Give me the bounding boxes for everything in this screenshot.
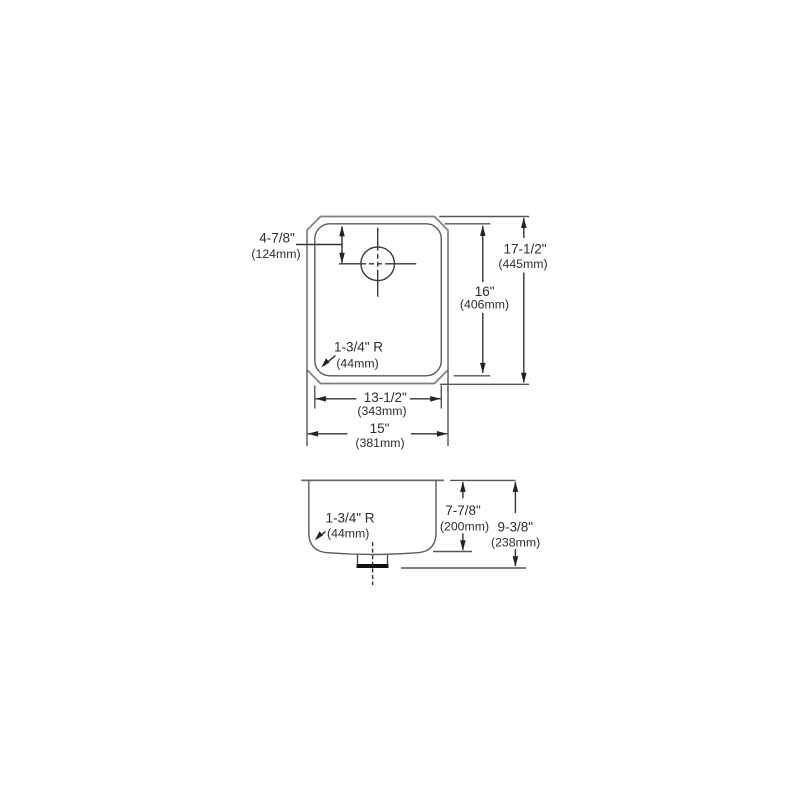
svg-text:13-1/2": 13-1/2": [364, 390, 407, 405]
svg-text:(124mm): (124mm): [251, 247, 300, 261]
side view: rim line: [301, 479, 444, 481]
dim 17-1/2 down arrow: [521, 373, 527, 384]
faucet hole horizontal centerline: [339, 263, 416, 265]
top view: outer rim outline (chamfered rectangle): [307, 217, 448, 384]
dim 15 left extension line: [306, 370, 308, 446]
dim 13-1/2 dimension line left segment: [316, 398, 357, 400]
dim 15 left arrow: [308, 431, 319, 437]
faucet hole vertical centerline: [377, 228, 379, 297]
dim 7-7/8 dimension line upper segment: [462, 482, 464, 498]
svg-text:15": 15": [370, 421, 390, 436]
svg-text:7-7/8": 7-7/8": [445, 503, 481, 518]
dim 13-1/2 left arrow: [315, 396, 326, 402]
dim 13-1/2 right extension line: [440, 386, 442, 409]
svg-text:(406mm): (406mm): [460, 298, 509, 312]
side view corner radius arrow: [317, 532, 326, 539]
dim 17-1/2 up arrow: [521, 218, 527, 229]
dim 4-7/8 dimension line: [341, 227, 343, 264]
dim 15 right arrow: [437, 431, 448, 437]
svg-text:4-7/8": 4-7/8": [259, 231, 295, 246]
dim 7-7/8 dimension line lower segment: [462, 533, 464, 550]
svg-text:(343mm): (343mm): [357, 404, 406, 418]
svg-text:(44mm): (44mm): [327, 527, 369, 541]
dim 9-3/8 dimension line lower segment: [514, 549, 516, 566]
svg-text:(445mm): (445mm): [498, 257, 547, 271]
side view: bowl outline: [309, 480, 436, 554]
dim 4-7/8 leader line: [296, 244, 342, 246]
svg-text:1-3/4" R: 1-3/4" R: [325, 511, 374, 526]
dim 7-7/8 bottom extension line: [433, 551, 472, 553]
svg-text:17-1/2": 17-1/2": [503, 242, 546, 257]
dim 4-7/8 down arrow: [339, 253, 345, 263]
corner radius arrow top view: [324, 356, 336, 366]
dim 17-1/2 dimension line lower segment: [523, 273, 525, 383]
dim 13-1/2 left extension line: [314, 386, 316, 409]
svg-text:9-3/8": 9-3/8": [498, 520, 534, 535]
dim 9-3/8 dimension line upper segment: [514, 482, 516, 513]
dim 16 up arrow: [480, 225, 486, 236]
svg-text:(44mm): (44mm): [336, 357, 378, 371]
side view: drain black band: [357, 564, 389, 568]
dim 15 dimension line right segment: [411, 433, 447, 435]
dim 4-7/8 up arrow: [339, 226, 345, 237]
dim 9-3/8 down arrow: [513, 556, 519, 567]
dim 13-1/2 dimension line right segment: [410, 398, 441, 400]
dim 17-1/2 top extension line: [439, 216, 529, 218]
dim 17-1/2 dimension line upper segment: [523, 218, 525, 238]
dim 16 dimension line upper segment: [482, 226, 484, 282]
dim 9-3/8 bottom extension line: [401, 567, 526, 569]
dim 15 dimension line left segment: [308, 433, 348, 435]
svg-text:1-3/4" R: 1-3/4" R: [334, 340, 383, 355]
side view: top extension line: [450, 479, 516, 481]
dim 16 bottom extension line: [454, 375, 491, 377]
dim 16 top extension line: [445, 223, 491, 225]
side view: drain dashed centerline: [372, 542, 374, 585]
dim 15 right extension line: [447, 370, 449, 446]
side view: drain outline: [358, 555, 388, 564]
dim 7-7/8 down arrow: [460, 540, 466, 551]
dim 13-1/2 right arrow: [430, 396, 441, 402]
dim 17-1/2 bottom extension line: [440, 383, 529, 385]
dim 16 down arrow: [480, 363, 486, 374]
svg-text:(200mm): (200mm): [440, 520, 489, 534]
svg-text:(238mm): (238mm): [491, 536, 540, 550]
dim 9-3/8 up arrow: [513, 481, 519, 492]
svg-text:(381mm): (381mm): [355, 436, 404, 450]
faucet hole circle: [361, 247, 395, 281]
top view: inner bowl outline (rounded rectangle): [315, 224, 442, 376]
dim 16 dimension line lower segment: [482, 313, 484, 373]
dim 7-7/8 up arrow: [460, 481, 466, 492]
